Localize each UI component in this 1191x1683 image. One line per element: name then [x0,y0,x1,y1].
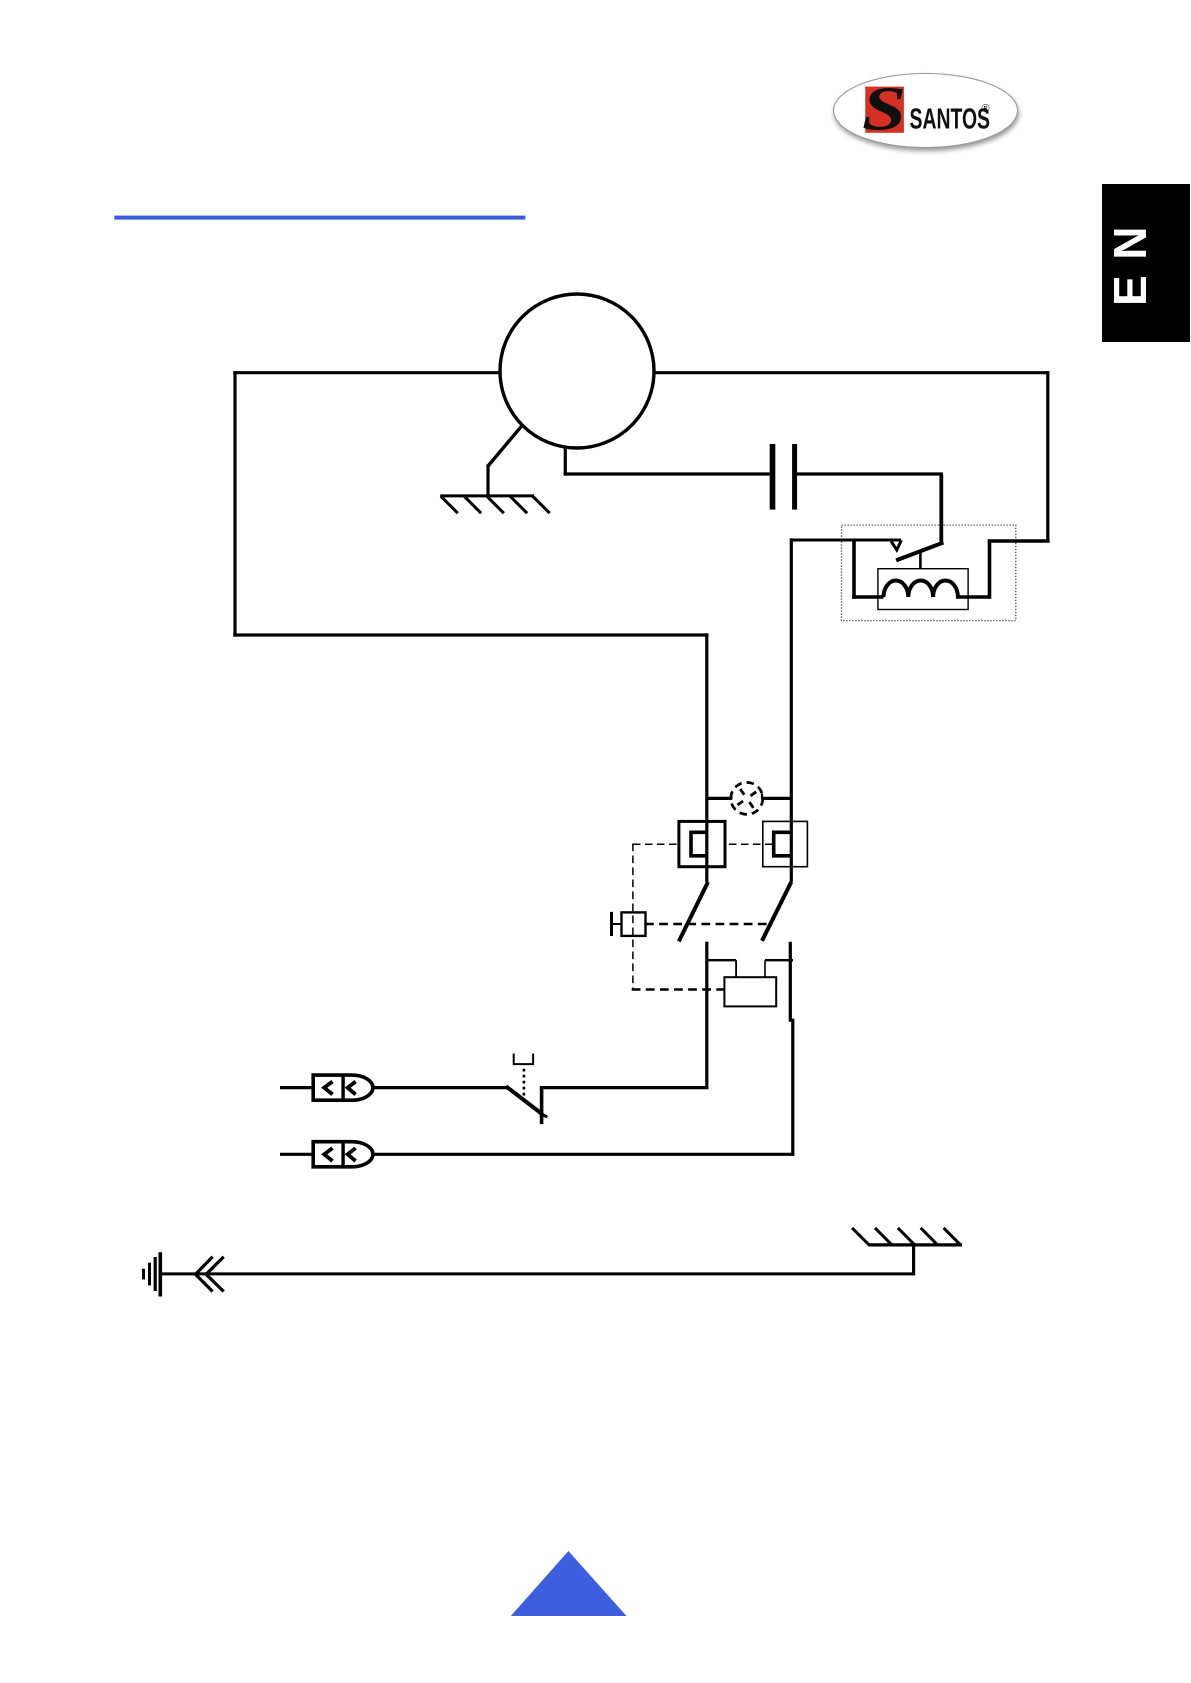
svg-text:EN: EN [1104,211,1156,306]
svg-text:S: S [862,76,906,144]
svg-text:®: ® [982,103,990,115]
svg-text:SANTOS: SANTOS [910,103,991,135]
